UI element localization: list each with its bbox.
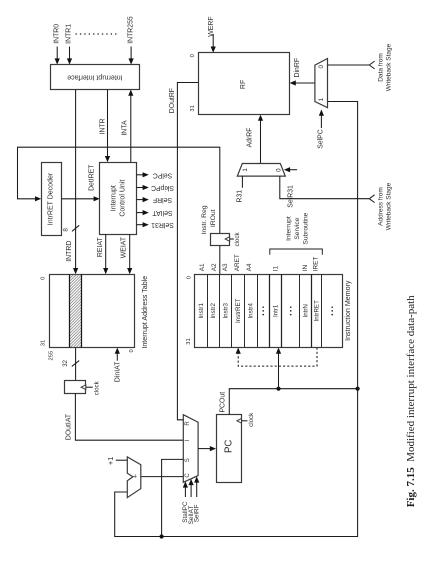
wire adder to mux input C: [141, 476, 184, 478]
input INTR0: [53, 24, 60, 65]
svg-text:DetIRET: DetIRET: [88, 164, 95, 191]
IM address label A1: [199, 263, 206, 271]
mux select StallPC: [182, 481, 189, 522]
svg-text:Instr3: Instr3: [222, 303, 229, 319]
svg-text:0: 0: [187, 276, 193, 279]
wire PCOut: [219, 389, 357, 415]
svg-text:DOutIAT: DOutIAT: [66, 413, 73, 440]
svg-text:Interrupt Interface: Interrupt Interface: [67, 74, 122, 81]
svg-text:SkipPC: SkipPC: [151, 184, 174, 191]
svg-text:ARET: ARET: [234, 254, 241, 271]
svg-text:INTR0: INTR0: [53, 24, 60, 44]
junction feedback to mux input S: [160, 534, 164, 538]
mux select SelRF: [193, 476, 200, 522]
svg-text:INTR: INTR: [99, 118, 106, 134]
IM column dividers: [208, 274, 322, 347]
wire WERF: [208, 16, 216, 52]
wire INTRD (interface to IAT): [73, 90, 78, 275]
wire INTA (ICU to interface): [122, 90, 134, 163]
svg-text:R31: R31: [237, 190, 244, 203]
IM address label A2: [211, 263, 218, 271]
svg-text:Data from: Data from: [378, 53, 385, 82]
svg-text:Intr1: Intr1: [273, 304, 280, 317]
svg-text:Instr1: Instr1: [198, 303, 205, 319]
svg-text:A3: A3: [222, 263, 229, 271]
svg-text:IRET: IRET: [313, 257, 320, 272]
interrupt interface block: [51, 65, 140, 90]
IM cell Instr3: [222, 303, 229, 319]
svg-text:clock: clock: [234, 232, 241, 247]
SelPC mux: [315, 59, 328, 108]
svg-text:IN: IN: [302, 265, 309, 272]
label Data from Writeback Stage: [378, 43, 393, 91]
mux select SelIAT: [188, 479, 195, 524]
bus width tick 32: [63, 359, 79, 366]
svg-text:DOutRF: DOutRF: [169, 88, 176, 113]
dotted ellipsis between INTR1 and INTR255: [76, 33, 120, 35]
IM address label I1: [273, 266, 280, 272]
IntrRET Decoder block: [42, 163, 62, 236]
IAT bit index 31: [41, 340, 47, 346]
svg-text:Instr4: Instr4: [247, 303, 254, 319]
wire IROut (Instr.Reg to IntrRET Decoder): [18, 147, 220, 233]
svg-text:PCOut: PCOut: [219, 392, 226, 413]
input INTR255: [127, 16, 134, 65]
IM address label ARET: [234, 254, 241, 271]
svg-text:Instruction Memory: Instruction Memory: [344, 280, 352, 341]
svg-text:DinRF: DinRF: [294, 58, 301, 78]
input INTR1: [66, 24, 73, 65]
ICU output SelR31: [137, 221, 174, 228]
program counter PC: [217, 415, 242, 483]
svg-text:INTA: INTA: [122, 120, 129, 136]
svg-text:0: 0: [190, 54, 196, 57]
svg-text:IntrRET: IntrRET: [314, 300, 321, 322]
svg-text:SelRF: SelRF: [193, 504, 200, 522]
figure caption: [405, 295, 417, 507]
svg-text:Service: Service: [294, 217, 301, 239]
bracket over interrupt service subroutine: [270, 249, 323, 255]
svg-text:SelR31: SelR31: [287, 185, 294, 208]
interrupt control unit U-ICU: [100, 163, 137, 235]
svg-text:clock: clock: [248, 412, 255, 427]
svg-text:1: 1: [242, 168, 249, 172]
svg-text:A2: A2: [211, 263, 218, 271]
svg-text:Writeback Stage: Writeback Stage: [385, 43, 392, 91]
IAT row index 0: [129, 349, 135, 352]
IM ellipsis dots: [262, 306, 264, 315]
svg-text:0: 0: [276, 168, 283, 172]
dashed wire IntrRET return to ARET: [236, 348, 317, 367]
instruction register Instr.Reg: [211, 232, 241, 247]
IM address label IN: [302, 265, 309, 272]
svg-text:Interrupt Address Table: Interrupt Address Table: [141, 276, 149, 349]
wire to mux input S: [162, 459, 184, 536]
label Instr. Reg: [201, 205, 208, 234]
IM cell IntrN: [302, 304, 309, 317]
svg-text:Address from: Address from: [378, 187, 385, 226]
svg-text:IntrRET Decoder: IntrRET Decoder: [48, 172, 55, 225]
svg-text:Subroutine: Subroutine: [303, 212, 310, 244]
svg-text:DinIAT: DinIAT: [114, 361, 121, 382]
IM cell Instr4: [247, 303, 254, 319]
svg-text:255: 255: [49, 351, 55, 361]
wire PCOut to IM column I1: [276, 348, 281, 389]
svg-text:S: S: [185, 458, 191, 462]
svg-text:WEIAT: WEIAT: [121, 236, 128, 258]
wire mux to PC: [198, 446, 216, 451]
IM cell InstrRET: [235, 298, 242, 323]
IAT output register: [65, 380, 101, 395]
svg-text:Instr. Reg: Instr. Reg: [201, 205, 208, 234]
svg-text:31: 31: [186, 338, 192, 344]
svg-text:Instr2: Instr2: [210, 303, 217, 319]
constant R31 input: [237, 176, 244, 202]
IM cell Instr2: [210, 303, 217, 319]
instruction memory block: [195, 275, 343, 348]
IM address label A3: [222, 263, 229, 271]
ICU output SkipPC: [137, 184, 174, 191]
svg-text:PC: PC: [223, 440, 234, 453]
IAT row index 255: [49, 351, 55, 361]
svg-text:RF: RF: [240, 80, 247, 89]
ICU output SelRF: [137, 196, 173, 203]
svg-text:I1: I1: [273, 266, 280, 272]
IM bit index 0: [187, 276, 193, 279]
svg-text:INTR1: INTR1: [66, 24, 73, 44]
svg-text:A1: A1: [199, 263, 206, 271]
svg-text:A4: A4: [246, 263, 253, 271]
interrupt address table block: [50, 275, 135, 348]
IAT highlighted column (hatched): [70, 274, 82, 347]
wire DinIAT: [114, 348, 121, 382]
svg-text:32: 32: [63, 359, 69, 366]
svg-text:WERF: WERF: [208, 16, 215, 36]
wire PC-source feedback net: [115, 102, 358, 537]
svg-text:SelR31: SelR31: [151, 221, 174, 228]
svg-text:+: +: [133, 473, 137, 480]
PC source mux: [183, 415, 198, 483]
svg-text:1: 1: [318, 97, 325, 101]
label IROut: [210, 209, 217, 227]
wire DetIRET (decoder to ICU): [61, 164, 100, 202]
svg-text:Writeback Stage: Writeback Stage: [385, 182, 392, 230]
wire DinRF (SelPC mux to RF): [290, 58, 315, 86]
label Interrupt Address Table: [141, 276, 149, 349]
SelR31 select input: [284, 167, 297, 208]
svg-text:0: 0: [41, 277, 47, 280]
svg-text:R: R: [185, 421, 191, 426]
SelPC select input: [318, 110, 325, 149]
label INTRD: [66, 241, 73, 262]
IM ellipsis dots: [331, 306, 333, 315]
RF bit index 31: [190, 105, 196, 111]
junction PCOut to PC-source net: [356, 387, 360, 391]
wire data from writeback to SelPC mux input 0: [328, 61, 375, 69]
svg-text:SelPC: SelPC: [318, 129, 325, 149]
RF bit index 0: [190, 54, 196, 57]
svg-text:8: 8: [63, 228, 70, 232]
svg-text:InstrRET: InstrRET: [235, 298, 242, 323]
wire DOutRF (RF to mux input R): [169, 83, 198, 420]
svg-text:REIAT: REIAT: [97, 237, 104, 258]
svg-text:AdrRF: AdrRF: [247, 128, 254, 148]
svg-text:SelRF: SelRF: [153, 196, 172, 203]
svg-text:INTRD: INTRD: [66, 241, 73, 262]
register file RF: [199, 53, 290, 115]
wire IAT to output register: [75, 348, 77, 381]
wire REIAT (ICU to IAT): [97, 234, 108, 274]
IM bit index 31: [186, 338, 192, 344]
ICU output SelPC: [137, 171, 173, 178]
wire DOutIAT (register to mux input I): [66, 393, 184, 440]
svg-text:SelPC: SelPC: [153, 171, 173, 178]
svg-text:31: 31: [41, 340, 47, 346]
svg-text:0: 0: [318, 65, 325, 69]
svg-text:C: C: [185, 473, 191, 478]
junction PCOut to instruction memory: [276, 387, 280, 391]
svg-text:Interrupt: Interrupt: [111, 185, 118, 211]
wire INTR (interface to ICU): [99, 90, 110, 163]
IM ellipsis dots: [290, 306, 292, 315]
IAT bit index 0: [41, 277, 47, 280]
svg-text:+1: +1: [106, 457, 115, 466]
bus width tick 8 on INTRD: [63, 225, 80, 231]
svg-text:Fig. 7.15 Modified interrupt i: Fig. 7.15 Modified interrupt interface d…: [405, 295, 417, 507]
IM cell IntrRET: [314, 300, 321, 322]
IM cell Instr1: [198, 303, 205, 319]
svg-text:IROut: IROut: [210, 209, 217, 227]
svg-text:INTR255: INTR255: [127, 16, 134, 44]
label Interrupt Service Subroutine: [286, 212, 310, 244]
wire WEIAT (ICU to IAT): [121, 234, 133, 274]
label Instruction Memory: [344, 280, 352, 341]
constant +1 input: [106, 457, 127, 466]
svg-text:Interrupt: Interrupt: [286, 216, 293, 241]
SelR31 mux: [237, 164, 285, 177]
wire IM to Instr.Reg: [219, 246, 221, 274]
IM address label IRET: [313, 257, 320, 272]
PC clock input: [237, 412, 255, 427]
svg-text:IntrN: IntrN: [302, 304, 309, 317]
svg-text:SelIAT: SelIAT: [152, 209, 173, 216]
IM address label A4: [246, 263, 253, 271]
wire AdrRF (SelR31 mux to RF): [247, 115, 264, 164]
label Address from Writeback Stage: [378, 182, 393, 230]
IM highlighted column borders: [270, 274, 312, 347]
ICU output SelIAT: [137, 209, 173, 216]
svg-text:clock: clock: [94, 380, 101, 395]
svg-text:Control Unit: Control Unit: [120, 180, 127, 217]
IM cell Intr1: [273, 304, 280, 317]
svg-text:31: 31: [190, 105, 196, 111]
wire address from writeback to SelR31 mux input 0: [280, 176, 375, 203]
svg-text:0: 0: [129, 349, 135, 352]
incrementer adder: [127, 457, 141, 498]
